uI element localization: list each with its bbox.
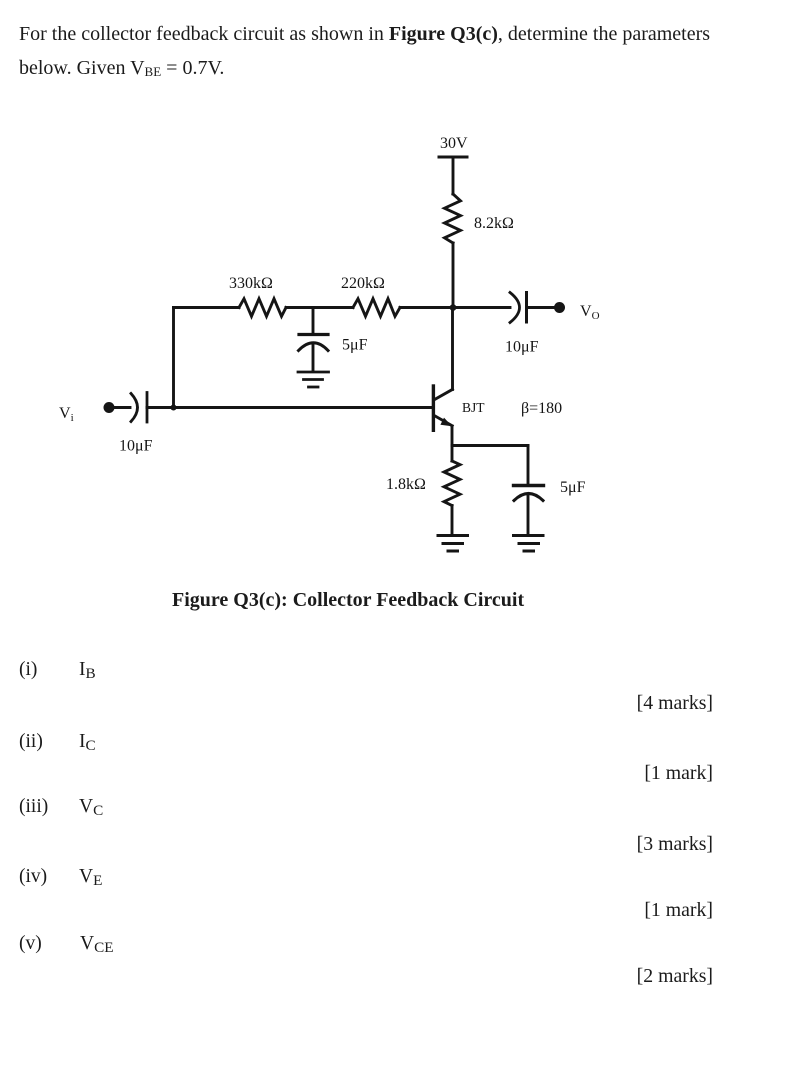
svg-text:10μF: 10μF	[119, 438, 153, 455]
svg-text:Vi: Vi	[59, 405, 74, 424]
wire emitter to bypass cap	[527, 446, 530, 485]
svg-text:5μF: 5μF	[342, 337, 368, 354]
capacitor 10uF output curved plate	[510, 293, 520, 323]
wire between 330k and 220k	[286, 306, 353, 309]
wire bypass cap to ground	[527, 495, 530, 535]
ground (feedback cap)	[298, 372, 329, 387]
svg-text:BJT: BJT	[462, 400, 485, 415]
collector node dot	[450, 304, 457, 311]
wire 220k to collector node	[400, 306, 453, 309]
resistor 220k	[353, 299, 400, 317]
resistor 330k	[239, 299, 286, 317]
capacitor 10uF output flat plate	[525, 293, 528, 323]
marks (ii)	[644, 763, 713, 784]
Vo terminal dot	[554, 302, 565, 313]
item (ii)	[19, 731, 43, 752]
wire feedback left segment	[174, 306, 240, 309]
svg-text:220kΩ: 220kΩ	[341, 275, 385, 292]
wire emitter node horizontal	[452, 444, 528, 447]
wire feedback vertical	[172, 308, 175, 408]
capacitor 10uF input flat plate	[146, 393, 149, 423]
capacitor 5uF stub	[312, 308, 315, 335]
wire collector node to output cap	[453, 306, 510, 309]
capacitor 5uF bypass flat plate	[514, 484, 544, 487]
capacitor 5uF flat plate	[299, 333, 328, 336]
item (i)	[19, 659, 37, 680]
svg-text:VO: VO	[580, 303, 600, 322]
ground (bypass cap)	[514, 536, 544, 552]
problem statement paragraph line 2	[19, 57, 224, 79]
svg-text:30V: 30V	[440, 135, 468, 152]
wire base	[174, 406, 433, 409]
wire RE to ground	[451, 506, 454, 536]
svg-text:330kΩ: 330kΩ	[229, 275, 273, 292]
base junction dot	[171, 405, 177, 411]
resistor 1.8k	[444, 461, 460, 506]
transistor collector lead	[435, 389, 453, 399]
Vi terminal dot	[104, 402, 115, 413]
marks (v)	[637, 966, 713, 987]
transistor BJT base bar	[432, 386, 435, 430]
svg-text:1.8kΩ: 1.8kΩ	[386, 476, 426, 493]
problem statement paragraph line 1	[19, 23, 710, 45]
svg-text:β=180: β=180	[521, 400, 562, 417]
marks (iii)	[637, 834, 713, 855]
svg-text:10μF: 10μF	[505, 339, 539, 356]
item (iii)	[19, 796, 48, 817]
wire R1 to collector node	[452, 243, 455, 308]
resistor 8.2k	[445, 194, 461, 243]
svg-text:8.2kΩ: 8.2kΩ	[474, 215, 514, 232]
capacitor 10uF input curved plate	[131, 394, 138, 422]
figure caption	[172, 590, 524, 610]
transistor emitter arrow	[440, 418, 452, 427]
wire emitter node to RE	[451, 446, 454, 462]
wire collector	[451, 308, 454, 390]
marks (i)	[637, 693, 713, 714]
wire input cap to base junction	[147, 406, 174, 409]
supply rail bar	[439, 156, 467, 159]
wire Vi dot to input cap	[109, 406, 130, 409]
item (iv)	[19, 866, 47, 887]
svg-text:5μF: 5μF	[560, 479, 586, 496]
wire cap to Vo terminal	[528, 306, 556, 309]
marks (iv)	[644, 900, 713, 921]
wire supply to R1	[452, 157, 455, 194]
item (v)	[19, 933, 42, 954]
ground (emitter resistor)	[438, 536, 468, 552]
transistor emitter lead	[435, 416, 453, 426]
wire cap to ground	[312, 344, 315, 371]
wire emitter down	[451, 426, 454, 446]
capacitor 5uF bypass curved plate	[514, 494, 543, 501]
capacitor 5uF curved plate	[299, 343, 329, 351]
